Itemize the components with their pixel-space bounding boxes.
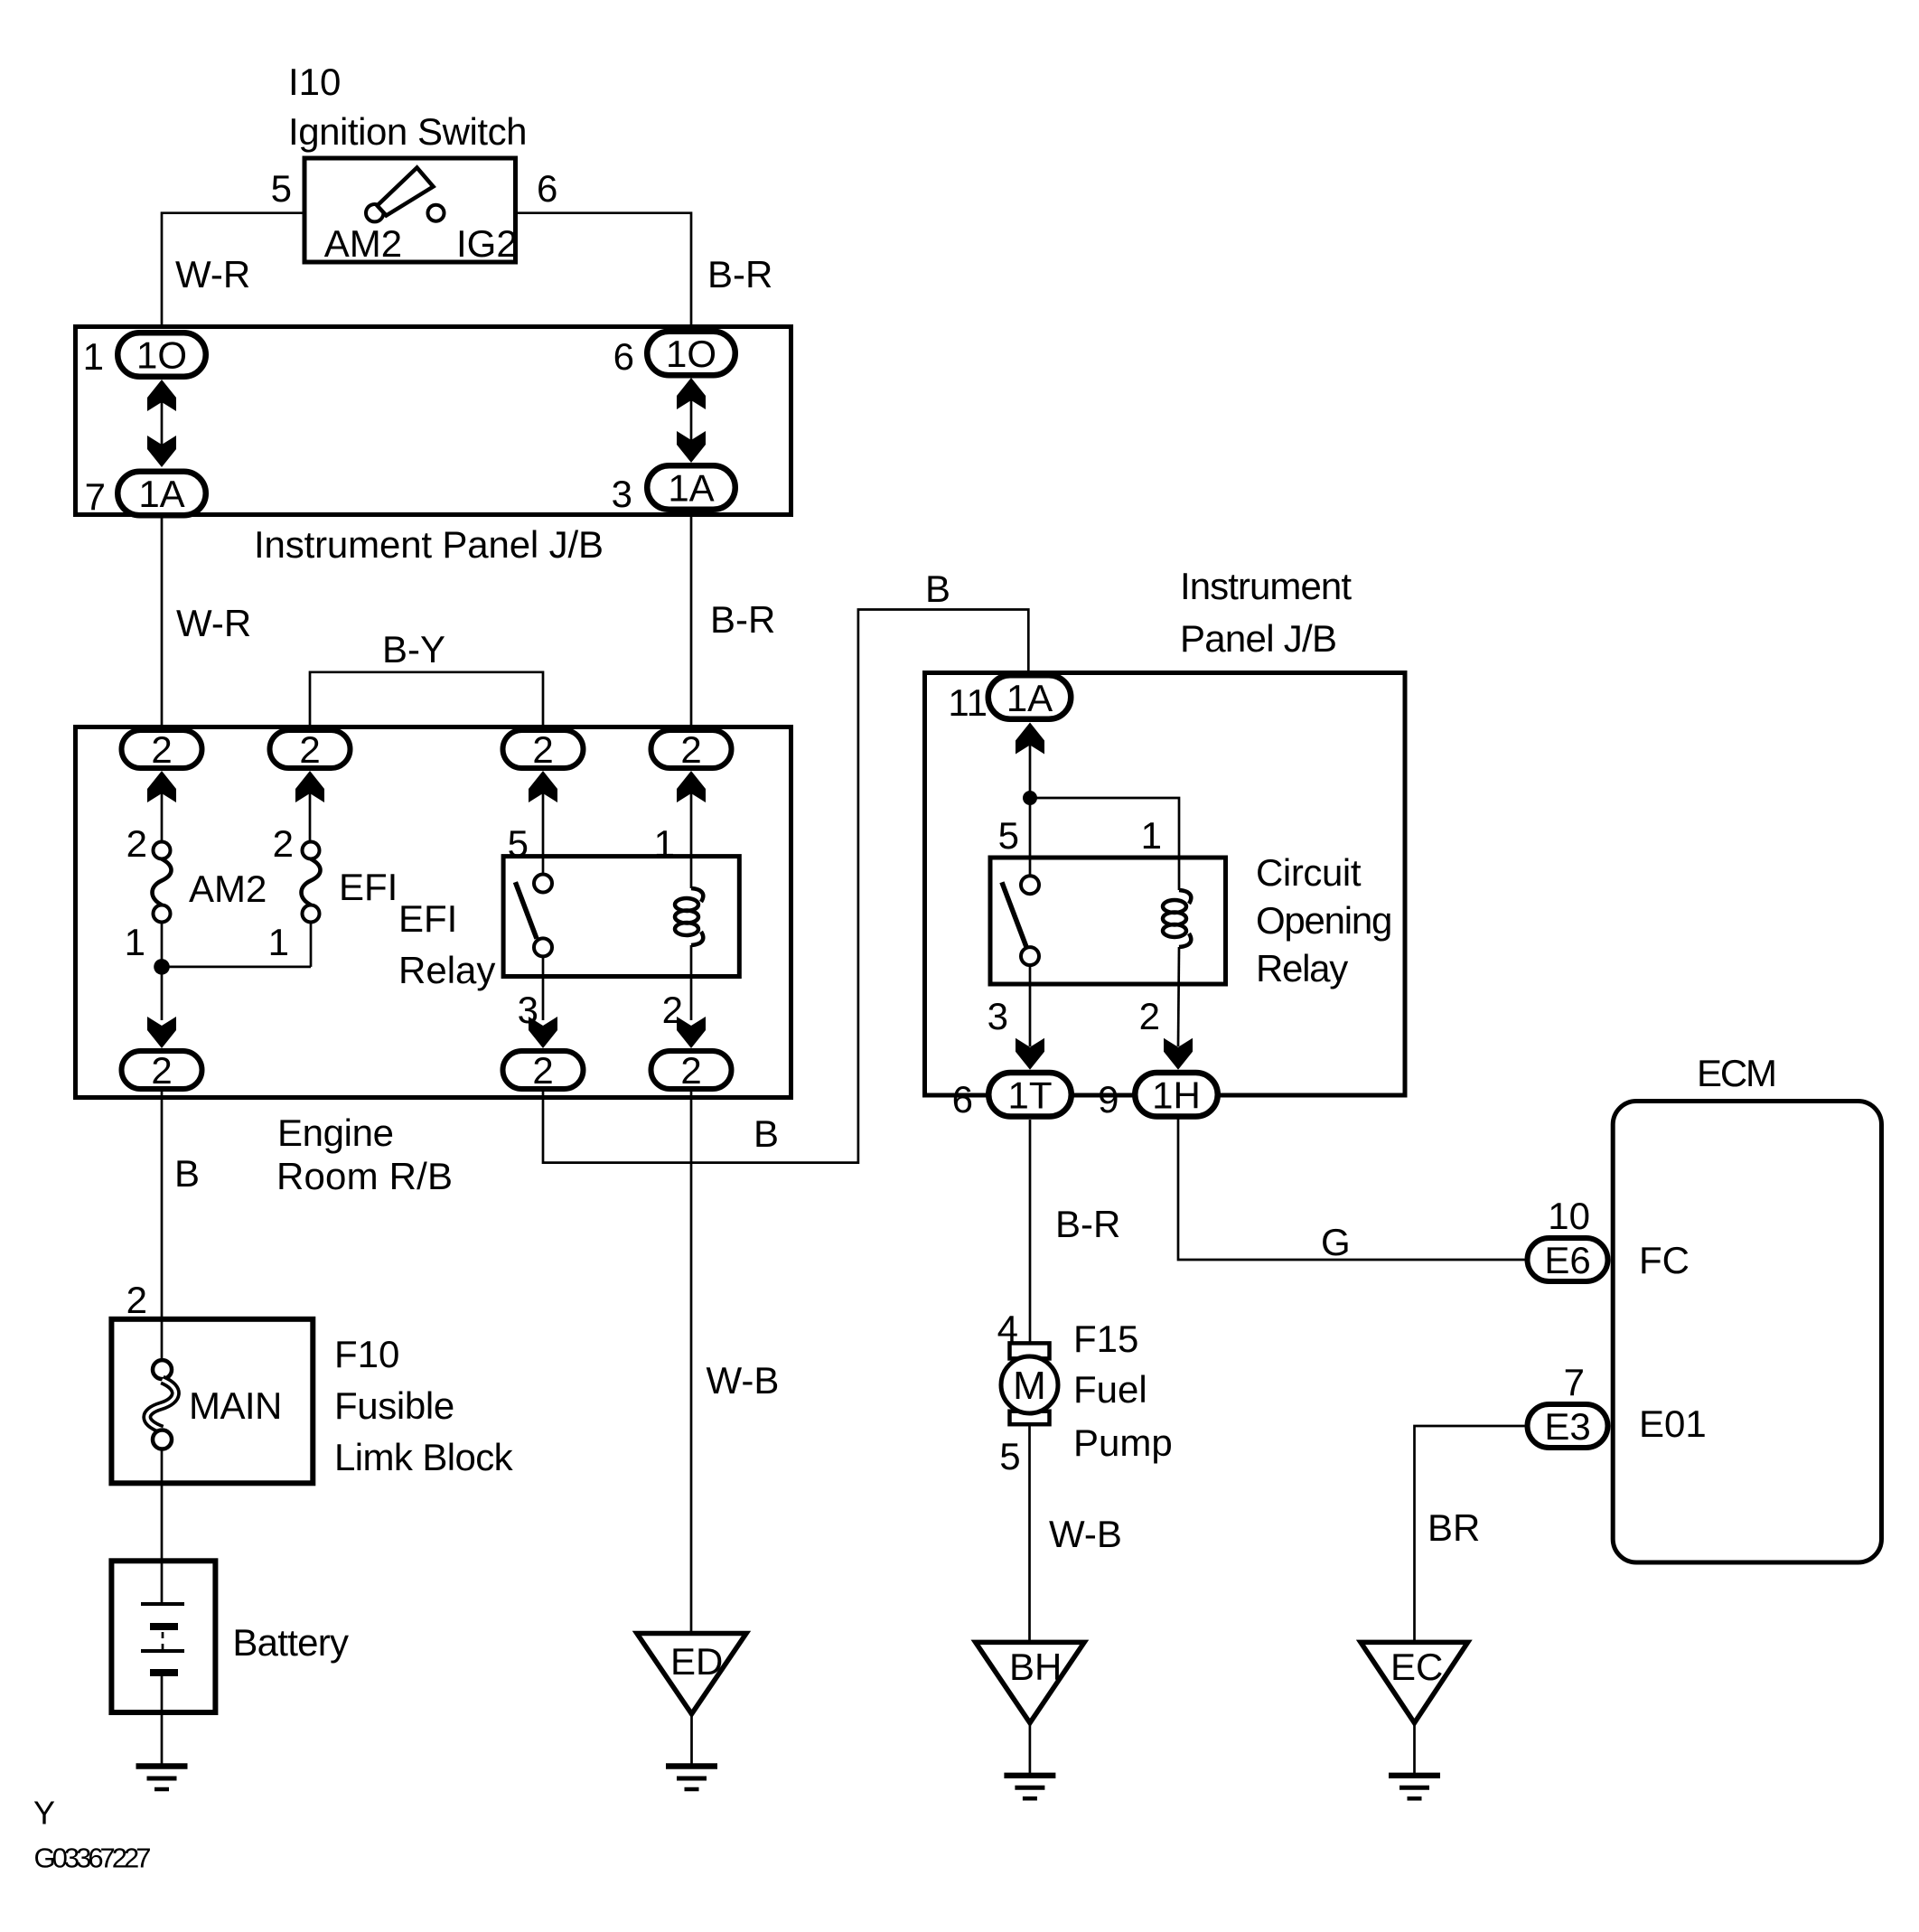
ground BH (976, 1642, 1084, 1798)
svg-text:B: B (925, 567, 950, 610)
svg-text:W-B: W-B (1049, 1513, 1122, 1555)
wire junction to relay contact (1029, 798, 1032, 876)
junction dot (154, 959, 170, 975)
svg-text:Y: Y (33, 1795, 55, 1832)
svg-text:1H: 1H (1152, 1074, 1201, 1117)
wire B-R from connector 1T to fuel pump (1029, 1120, 1032, 1344)
instrument panel J/B no.1 body (76, 327, 791, 515)
wire from junction down (161, 967, 164, 1020)
svg-text:Limk Block: Limk Block (334, 1436, 514, 1478)
wire B-R from J/B pin 3 to engine room R/B (690, 512, 693, 728)
svg-text:7: 7 (85, 475, 106, 518)
svg-text:1: 1 (268, 921, 289, 963)
svg-text:FC: FC (1639, 1239, 1690, 1281)
svg-text:7: 7 (1564, 1361, 1585, 1403)
wire from fusible link to battery (161, 1449, 164, 1603)
svg-text:Room R/B: Room R/B (276, 1155, 453, 1197)
svg-text:1: 1 (1141, 814, 1162, 857)
svg-text:1: 1 (125, 921, 145, 963)
svg-text:MAIN: MAIN (189, 1384, 282, 1427)
engine room R/B body (76, 727, 791, 1098)
svg-text:9: 9 (1098, 1078, 1119, 1121)
fuse EFI (302, 842, 321, 923)
wire from fuse EFI down (310, 923, 313, 967)
wire junction to coil branch (1030, 798, 1179, 890)
svg-text:3: 3 (988, 995, 1008, 1037)
svg-text:B-R: B-R (710, 598, 775, 641)
wire B-Y jumper over engine room R/B (310, 672, 543, 728)
svg-text:AM2: AM2 (189, 868, 267, 910)
svg-text:Relay: Relay (1256, 947, 1348, 989)
connector 1O right (647, 332, 735, 376)
svg-text:1A: 1A (668, 467, 714, 510)
svg-text:W-B: W-B (707, 1359, 780, 1402)
connector 2 bottom col1 (122, 1049, 202, 1092)
svg-text:ED: ED (670, 1640, 723, 1683)
svg-text:Opening: Opening (1256, 899, 1392, 942)
connector 2 top col1 (122, 728, 202, 771)
svg-text:Relay: Relay (398, 949, 495, 991)
ground ED (637, 1634, 746, 1790)
svg-text:Circuit: Circuit (1256, 851, 1362, 894)
wire bus arrow left inside J/B no.1 (147, 380, 176, 467)
svg-text:Panel J/B: Panel J/B (1180, 617, 1337, 660)
arrow into EFI relay coil (677, 771, 706, 802)
svg-text:2: 2 (299, 728, 320, 771)
svg-text:2: 2 (126, 1279, 147, 1321)
svg-text:I10: I10 (288, 61, 341, 103)
wire W-R from ignition switch pin 5 to J/B pin 1 (162, 213, 303, 329)
svg-text:11: 11 (948, 681, 988, 724)
wire BR from connector E3 to ground EC (1415, 1426, 1525, 1642)
wire from relay switch to connector 1T (1029, 965, 1032, 1046)
connector 1A right (647, 465, 735, 510)
fuse AM2 (153, 842, 172, 923)
svg-text:10: 10 (1548, 1195, 1590, 1237)
svg-text:3: 3 (612, 473, 632, 515)
svg-text:2: 2 (273, 822, 294, 865)
svg-text:G: G (1321, 1221, 1351, 1263)
connector 1A left (117, 472, 206, 516)
svg-text:2: 2 (151, 728, 172, 771)
svg-text:M: M (1013, 1364, 1046, 1408)
svg-text:6: 6 (952, 1078, 973, 1121)
svg-text:1A: 1A (1006, 677, 1053, 719)
svg-text:EFI: EFI (398, 897, 457, 940)
wire G from connector 1H to ECM terminal E6 (1178, 1118, 1525, 1260)
svg-text:5: 5 (271, 167, 292, 210)
svg-text:E6: E6 (1544, 1239, 1590, 1281)
svg-text:E01: E01 (1639, 1402, 1707, 1445)
wire B-R from ignition switch pin 6 to J/B pin 6 (518, 213, 691, 329)
svg-text:B-Y: B-Y (382, 628, 445, 671)
svg-text:1T: 1T (1007, 1074, 1052, 1117)
wire from battery to ground (161, 1676, 164, 1767)
svg-text:EFI: EFI (339, 866, 398, 908)
svg-text:B-R: B-R (1055, 1203, 1120, 1245)
arrow to connector 2 bottom col3 (529, 1017, 557, 1048)
wire from EFI relay coil down (690, 945, 693, 1020)
svg-text:2: 2 (126, 822, 147, 865)
wire W-R from J/B pin 7 to engine room R/B (161, 519, 164, 729)
arrow to connector 1H (1164, 1038, 1193, 1070)
arrow to connector 1T (1016, 1038, 1044, 1070)
svg-text:G03367227: G03367227 (34, 1843, 152, 1874)
instrument panel J/B no.2 body (925, 673, 1406, 1096)
junction dot J/B no.2 (1023, 791, 1037, 805)
svg-text:2: 2 (680, 728, 701, 771)
ignition switch terminal AM2 contact (366, 204, 383, 221)
connector 2 bottom col4 (651, 1049, 732, 1092)
svg-text:W-R: W-R (175, 253, 250, 295)
svg-text:2: 2 (680, 1049, 701, 1092)
arrow into fuse AM2 (147, 771, 176, 802)
arrow into fuse EFI (295, 771, 324, 802)
arrow into EFI relay contact (529, 771, 557, 802)
svg-text:AM2: AM2 (324, 222, 402, 265)
connector 1H (1135, 1073, 1218, 1117)
svg-text:2: 2 (1139, 995, 1160, 1037)
wire joining fuses (162, 966, 311, 969)
svg-text:6: 6 (613, 335, 634, 378)
connector 1T (988, 1073, 1072, 1117)
battery cells (141, 1604, 184, 1673)
svg-text:E3: E3 (1544, 1405, 1590, 1448)
connector 1A of J/B no.2 (988, 675, 1072, 719)
svg-text:F10: F10 (334, 1333, 399, 1375)
connector 2 top col4 (651, 728, 732, 771)
EFI relay switch (515, 875, 552, 957)
svg-text:ECM: ECM (1697, 1052, 1777, 1094)
svg-text:1O: 1O (136, 334, 187, 377)
svg-text:2: 2 (151, 1049, 172, 1092)
ignition switch terminal IG2 contact (428, 205, 445, 221)
wire B from R/B to fusible link block (161, 1092, 164, 1360)
wire to fuse EFI (309, 783, 312, 842)
svg-text:5: 5 (999, 1435, 1020, 1477)
svg-text:Fusible: Fusible (334, 1384, 454, 1427)
svg-text:W-R: W-R (176, 602, 251, 644)
battery body (111, 1561, 215, 1712)
wire to EFI relay contact (542, 783, 545, 875)
svg-text:Pump: Pump (1073, 1421, 1173, 1464)
wire B from R/B to instrument panel J/B no.2 (543, 610, 1028, 1163)
circuit opening relay body (990, 858, 1226, 984)
wire from fuse AM2 to junction (161, 923, 164, 967)
fusible link MAIN (147, 1360, 176, 1449)
ECM body (1613, 1102, 1881, 1563)
connector E6 (1528, 1238, 1608, 1281)
ground EC (1361, 1642, 1468, 1798)
svg-text:B: B (754, 1112, 779, 1155)
svg-text:2: 2 (532, 1049, 553, 1092)
connector 2 top col3 (503, 728, 584, 771)
svg-text:5: 5 (998, 814, 1019, 857)
svg-text:1: 1 (83, 335, 104, 378)
svg-text:BR: BR (1428, 1506, 1480, 1549)
wire from relay coil to connector 1H (1178, 947, 1179, 1046)
svg-text:Instrument Panel J/B: Instrument Panel J/B (254, 523, 604, 566)
svg-text:IG2: IG2 (456, 222, 518, 265)
wire W-B from fuel pump to ground BH (1028, 1424, 1031, 1642)
svg-text:BH: BH (1009, 1646, 1062, 1688)
EFI relay body (503, 857, 739, 977)
svg-text:Ignition Switch: Ignition Switch (288, 110, 528, 153)
connector E3 (1528, 1404, 1608, 1448)
wire bus arrow right inside J/B no.1 (677, 378, 706, 463)
circuit opening relay coil (1163, 890, 1191, 947)
wire to fuse AM2 (161, 783, 164, 842)
svg-text:Fuel: Fuel (1073, 1368, 1147, 1411)
connector 2 bottom col3 (503, 1049, 584, 1092)
ground battery (136, 1767, 188, 1790)
svg-text:EC: EC (1390, 1646, 1443, 1688)
connector 1O left (117, 333, 206, 377)
fuel pump F15 motor (1001, 1343, 1058, 1424)
svg-text:Battery: Battery (232, 1621, 349, 1664)
svg-text:F15: F15 (1073, 1318, 1138, 1360)
svg-text:B: B (174, 1152, 200, 1195)
EFI relay coil (675, 783, 703, 945)
fusible link block body (111, 1319, 313, 1484)
arrow to connector 2 bottom col4 (677, 1017, 706, 1048)
ignition switch lever (378, 168, 434, 216)
arrow to connector 2 bottom col1 (147, 1017, 176, 1048)
wire W-B from R/B to ground ED (690, 1092, 693, 1633)
svg-text:Instrument: Instrument (1180, 565, 1352, 607)
svg-text:1O: 1O (666, 333, 716, 375)
svg-text:2: 2 (532, 728, 553, 771)
ignition switch I10 body (304, 158, 516, 262)
wire from EFI relay switch down (542, 956, 545, 1020)
svg-text:1A: 1A (138, 473, 184, 515)
svg-text:6: 6 (537, 167, 557, 210)
connector 2 top col2 (270, 728, 351, 771)
svg-text:B-R: B-R (707, 253, 772, 295)
wire from 1A arrow to junction (1029, 745, 1032, 798)
svg-text:Engine: Engine (277, 1111, 394, 1154)
circuit opening relay switch (1002, 876, 1039, 965)
arrow from connector 1A (1016, 723, 1044, 755)
